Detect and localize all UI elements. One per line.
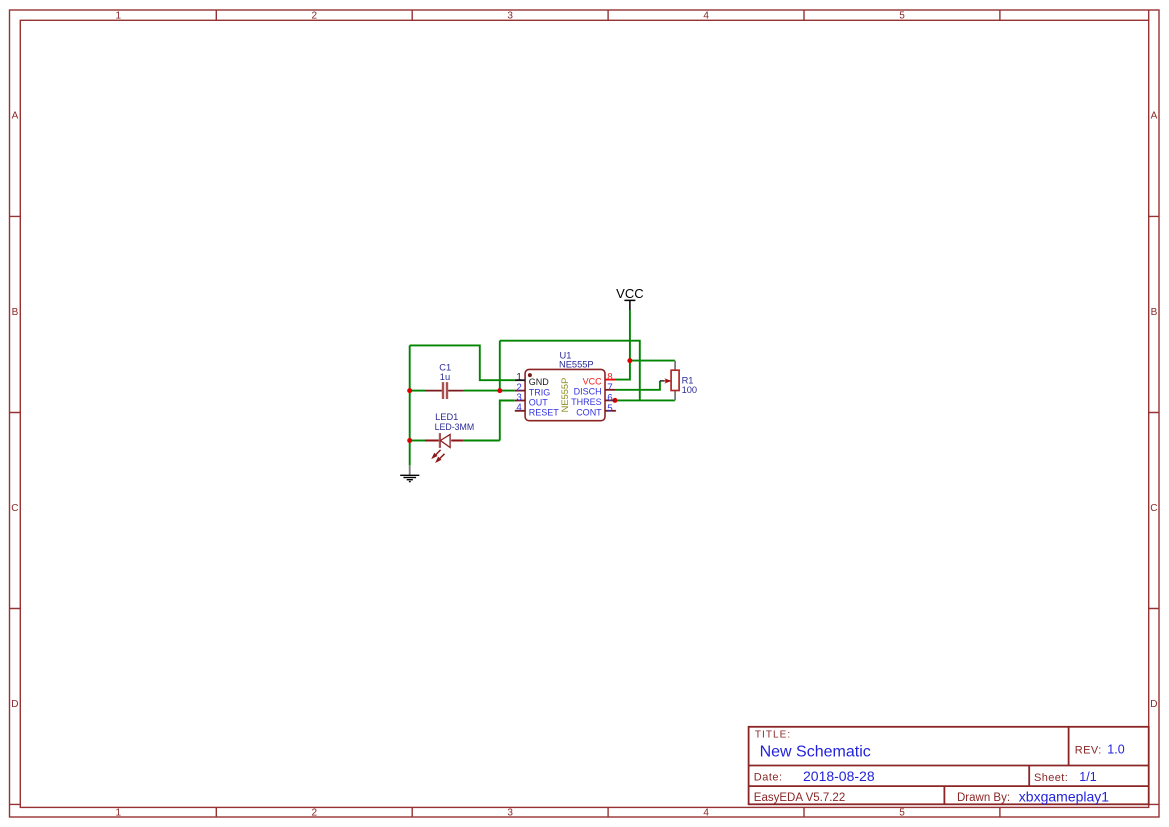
svg-text:4: 4: [703, 10, 709, 21]
junction node VCC: [627, 358, 632, 363]
title block border: [749, 727, 1149, 805]
svg-text:1: 1: [516, 372, 521, 383]
column ticks bottom: [216, 807, 1000, 817]
svg-text:5: 5: [607, 403, 613, 414]
wire: left ground rail vertical: [409, 345, 411, 465]
svg-text:2018-08-28: 2018-08-28: [803, 768, 875, 784]
svg-text:LED1: LED1: [435, 412, 458, 422]
svg-text:REV:: REV:: [1075, 745, 1102, 757]
wire: OUT to LED anode: [500, 401, 515, 441]
svg-text:EasyEDA V5.7.22: EasyEDA V5.7.22: [754, 792, 845, 804]
svg-text:5: 5: [899, 10, 905, 21]
wire: LED right lead to vertical: [464, 440, 500, 442]
svg-text:A: A: [12, 111, 19, 122]
svg-text:RESET: RESET: [529, 408, 560, 418]
wire: junction to R1 top: [630, 360, 675, 362]
svg-text:NE555P: NE555P: [560, 378, 570, 413]
wire: TRIG left segment: [410, 390, 425, 392]
pin numbers left: [516, 372, 522, 414]
wire: THRES to R1 bottom: [615, 399, 675, 401]
junction node TRIG-C1: [497, 388, 502, 393]
row ticks left: [10, 216, 21, 608]
svg-text:1: 1: [116, 10, 122, 21]
pin 3 stub: [515, 400, 525, 402]
frame row letters right: [1150, 111, 1157, 710]
svg-text:1u: 1u: [440, 372, 450, 382]
wire: top loop horizontal to pin1: [410, 345, 515, 380]
frame column numbers bottom: [116, 807, 906, 818]
row ticks right: [1149, 216, 1159, 608]
svg-text:1: 1: [116, 807, 122, 818]
svg-text:Drawn By:: Drawn By:: [957, 792, 1010, 804]
svg-text:NE555P: NE555P: [559, 360, 594, 370]
svg-text:1/1: 1/1: [1079, 770, 1096, 784]
U1 pin-1 marker dot: [528, 373, 532, 377]
wire: horizontal over chip to THRES: [500, 341, 640, 401]
svg-text:1.0: 1.0: [1107, 743, 1124, 757]
svg-text:3: 3: [507, 807, 513, 818]
svg-text:TRIG: TRIG: [529, 387, 551, 397]
junction node TRIG-rail: [407, 388, 412, 393]
VCC net flag: [616, 286, 643, 310]
svg-text:CONT: CONT: [576, 408, 602, 418]
pin numbers right: [607, 372, 613, 414]
svg-text:7: 7: [607, 382, 612, 393]
svg-text:xbxgameplay1: xbxgameplay1: [1019, 788, 1109, 804]
pin 8 stub (VCC, red): [605, 379, 615, 381]
svg-text:C: C: [1150, 503, 1157, 514]
junction node LED-rail: [407, 438, 412, 443]
svg-text:4: 4: [703, 807, 709, 818]
column ticks top: [216, 10, 1000, 20]
svg-text:VCC: VCC: [583, 376, 603, 386]
svg-text:D: D: [11, 699, 18, 710]
svg-text:R1: R1: [682, 375, 694, 385]
frame column numbers top: [116, 10, 906, 21]
svg-text:C1: C1: [439, 362, 451, 372]
svg-text:5: 5: [899, 807, 905, 818]
pin 5 stub: [605, 410, 616, 412]
wire: pin8 to VCC junction: [615, 361, 630, 380]
svg-text:2: 2: [312, 807, 318, 818]
wire: TRIG right segment C1 to pin2: [464, 390, 515, 392]
svg-text:A: A: [1151, 111, 1158, 122]
svg-text:Date:: Date:: [754, 772, 783, 784]
wire: VCC vertical down to junction: [629, 310, 631, 361]
svg-text:B: B: [12, 307, 19, 318]
junction node THRES: [613, 398, 618, 403]
svg-text:4: 4: [516, 403, 522, 414]
svg-text:100: 100: [682, 385, 698, 395]
frame row letters left: [11, 111, 18, 710]
R1 wiper arrow: [660, 380, 664, 382]
svg-text:VCC: VCC: [616, 286, 643, 301]
LED arrows: [435, 450, 441, 456]
pin 7 stub: [605, 389, 615, 391]
capacitor C1: [425, 362, 464, 399]
svg-text:3: 3: [507, 10, 513, 21]
LED LED1: [425, 412, 474, 462]
svg-text:OUT: OUT: [529, 397, 549, 407]
svg-text:TITLE:: TITLE:: [755, 730, 791, 741]
svg-text:B: B: [1151, 307, 1158, 318]
IC U1 NE555P body: [525, 369, 605, 420]
svg-text:C: C: [11, 503, 18, 514]
svg-text:GND: GND: [529, 377, 550, 387]
wire: vertical from TRIG junction up: [499, 341, 501, 391]
svg-text:Sheet:: Sheet:: [1034, 772, 1068, 784]
svg-text:2: 2: [312, 10, 318, 21]
ground symbol: [400, 465, 419, 481]
resistor R1: [660, 361, 697, 401]
pin 6 stub: [605, 399, 615, 401]
svg-text:LED-3MM: LED-3MM: [435, 422, 475, 432]
pin 1 stub (GND, black): [515, 379, 525, 381]
svg-text:D: D: [1150, 699, 1157, 710]
svg-text:6: 6: [607, 393, 613, 404]
pin 2 stub: [515, 390, 525, 392]
pin 4 stub: [515, 410, 525, 412]
wire: DISCH to wiper riser: [615, 381, 660, 390]
wire: LED left to rail: [410, 440, 425, 442]
svg-text:New Schematic: New Schematic: [760, 744, 871, 761]
svg-text:THRES: THRES: [571, 397, 602, 407]
svg-text:DISCH: DISCH: [574, 387, 602, 397]
